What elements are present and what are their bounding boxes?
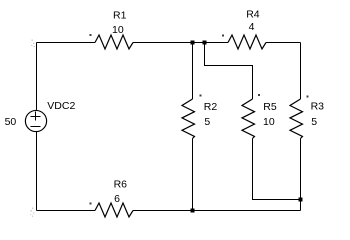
junction node A (top, R2 branch) <box>191 41 195 45</box>
voltage source VDC2 circle <box>25 110 46 131</box>
resistor R4 <box>228 35 266 49</box>
wire R2 bottom lead (R2 to bottom wire) <box>192 139 194 211</box>
wire left vertical upper (corner down to VDC2 plus pin) <box>36 43 38 111</box>
VDC2 minus sign <box>31 126 41 128</box>
svg-text:R4: R4 <box>246 8 260 20</box>
svg-text:5: 5 <box>204 116 210 128</box>
resistor R6 <box>95 203 133 217</box>
pin marker VDC2 minus (faint, near bottom-left corner) <box>32 208 33 209</box>
pin marker R2 <box>199 95 201 97</box>
junction node D (R5/R3 bottom) <box>299 198 303 202</box>
VDC2 plus sign <box>31 116 41 118</box>
pin marker R1 <box>90 34 92 36</box>
svg-text:VDC2: VDC2 <box>47 100 75 112</box>
resistor R3 <box>290 99 303 139</box>
wire R3 bottom to bottom-right corner <box>300 139 302 211</box>
svg-text:50: 50 <box>5 116 17 128</box>
svg-text:10: 10 <box>112 24 124 36</box>
wire bottom horizontal (R6 right to bottom-right corner) <box>133 210 301 212</box>
svg-text:R6: R6 <box>114 178 128 190</box>
svg-text:R5: R5 <box>263 101 277 113</box>
svg-text:4: 4 <box>249 21 255 33</box>
wire R5 bottom lead down then right to R3 branch <box>253 139 301 200</box>
wire R2 top lead (junction to R2) <box>192 43 194 100</box>
pin marker R4 <box>222 34 224 36</box>
resistor R2 <box>182 99 195 139</box>
pin marker R5 <box>258 94 260 96</box>
pin marker R3 <box>306 95 308 97</box>
svg-text:R3: R3 <box>311 101 325 113</box>
svg-text:5: 5 <box>311 116 317 128</box>
svg-text:R1: R1 <box>113 10 127 22</box>
pin marker VDC2 plus (faint, near top-left corner) <box>32 40 33 41</box>
svg-text:10: 10 <box>263 116 275 128</box>
wire R1 right to R4 left (through junctions) <box>133 42 228 44</box>
resistor R5 <box>242 99 255 139</box>
pin marker R6 <box>90 202 92 204</box>
wire top-left horizontal (node A to R1 left) <box>37 42 96 44</box>
svg-text:R2: R2 <box>204 101 218 113</box>
junction node B (top, R5 branch) <box>203 41 207 45</box>
svg-text:6: 6 <box>114 193 120 205</box>
wire bottom-left horizontal (corner to R6 left) <box>37 210 96 212</box>
wire right vertical down to R3 top <box>300 43 302 100</box>
resistor R1 <box>95 35 133 49</box>
junction node C (bottom, R2 branch) <box>191 209 195 213</box>
wire R4 right to top-right corner <box>266 42 301 44</box>
wire junction B down and right to R5 top <box>205 43 253 100</box>
wire left vertical lower (VDC2 minus pin down to corner) <box>36 132 38 211</box>
